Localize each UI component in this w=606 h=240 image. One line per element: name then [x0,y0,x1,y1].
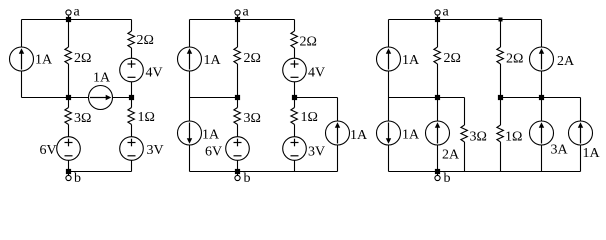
resistor 1ohm ckt2 [291,108,298,125]
node a terminal ckt1 [66,10,71,15]
wire bottom ckt3 [389,171,581,173]
junction mid-mid ckt1 [66,95,71,100]
svg-text:1A: 1A [402,128,420,143]
junction node b ckt2 [235,169,240,174]
svg-text:3V: 3V [147,143,164,158]
junction mid-mid ckt2 [235,95,240,100]
node a stub ckt2 [237,16,239,20]
current source 1A lower-left ckt2 [178,121,202,145]
svg-text:2Ω: 2Ω [506,52,523,67]
svg-text:3Ω: 3Ω [74,111,91,126]
wire right upper stub ckt3 [580,98,582,122]
svg-text:3Ω: 3Ω [244,111,261,126]
resistor 2ohm col4 ckt3 [497,47,504,64]
svg-text:2Ω: 2Ω [137,33,154,48]
wire mid col 3ohm stub ckt2 [237,98,239,108]
wire col5 3A stub ckt3 [541,98,543,122]
node a terminal ckt2 [235,10,240,15]
wire 1ohm to 3V ckt1 [131,125,133,137]
wire 6V to bottom ckt2 [237,160,239,171]
wire 4V to mid ckt2 [294,82,296,98]
resistor 2ohm mid ckt2 [234,47,241,64]
wire right to 4V ckt1 [131,48,133,58]
svg-text:2Ω: 2Ω [244,51,261,66]
svg-text:b: b [444,171,451,186]
svg-text:4V: 4V [308,66,325,81]
wire col4 1ohm stub ckt3 [500,98,502,126]
wire left mid ckt2 [189,71,191,121]
svg-text:1A: 1A [93,71,111,86]
wire col5 to mid ckt3 [541,71,543,98]
wire left lower ckt1 [21,71,23,98]
junction mid-right ckt1 [129,95,134,100]
node b stub ckt1 [68,172,70,176]
node b stub ckt3 [437,172,439,176]
current source 1A horizontal ckt1 [89,86,113,110]
svg-text:b: b [244,171,251,186]
wire 3V to bottom ckt1 [131,160,133,171]
wire 1ohm to 3V ckt2 [294,125,296,137]
wire mid col to mid ckt1 [68,64,70,98]
wire right lower stub ckt2 [337,145,339,172]
svg-text:1A: 1A [35,53,53,68]
voltage source 4V ckt2 [283,58,307,82]
junction node a ckt1 [66,17,71,22]
svg-text:1A: 1A [204,53,222,68]
svg-text:a: a [243,5,250,20]
wire third to 4V ckt2 [294,48,296,58]
resistor 2ohm right ckt2 [291,31,298,48]
svg-text:1A: 1A [350,128,368,143]
svg-text:2Ω: 2Ω [300,35,317,50]
svg-text:a: a [443,5,450,20]
svg-text:1Ω: 1Ω [138,110,155,125]
voltage source 6V ckt1 [57,137,81,161]
current source 1A upper-left ckt2 [178,47,202,71]
wire colA to mid ckt3 [437,64,439,98]
wire mid-left ckt3 [389,97,465,99]
wire right upper stub ckt1 [131,20,133,32]
wire right lower stub ckt3 [580,145,582,172]
wire top ckt1 [22,19,132,21]
wire mid src right stub ckt1 [113,97,132,99]
wire top ckt3 [389,19,542,21]
svg-text:6V: 6V [40,143,57,158]
resistor 2ohm mid ckt1 [65,47,72,64]
wire col5 upper stub ckt3 [541,20,543,48]
resistor 2ohm right ckt1 [128,31,134,48]
wire mid col upper stub ckt2 [237,20,239,48]
svg-text:2Ω: 2Ω [74,51,91,66]
junction third-mid ckt2 [292,95,297,100]
wire left lower ckt3 [388,145,390,172]
wire left upper ckt1 [21,20,23,48]
svg-text:1A: 1A [202,128,220,143]
wire mid-left ckt2 [190,97,238,99]
node a stub ckt1 [68,16,70,20]
current source 1A upper-left ckt3 [377,47,401,71]
junction col5-mid ckt3 [539,95,544,100]
svg-text:2Ω: 2Ω [444,51,461,66]
junction colA-mid ckt3 [435,95,440,100]
svg-text:2A: 2A [442,148,460,163]
wire mid-right ckt2 [295,97,338,99]
wire mid col 3ohm stub ckt1 [68,98,70,108]
wire 3ohm to bottom ckt3 [464,142,466,172]
wire 6V to bottom ckt1 [68,160,70,171]
current source 1A right ckt2 [326,121,350,145]
svg-text:6V: 6V [205,145,222,160]
junction node a ckt2 [235,17,240,22]
wire left upper ckt3 [388,20,390,48]
wire right 1ohm stub ckt1 [131,98,133,108]
wire colA upper stub ckt3 [437,20,439,48]
voltage source 6V ckt2 [226,137,250,161]
wire third 1ohm stub ckt2 [294,98,296,108]
svg-text:3A: 3A [551,143,569,158]
wire mid-right ckt3 [501,97,581,99]
wire right upper stub ckt2 [337,98,339,122]
voltage source 4V ckt1 [120,58,144,82]
wire 3ohm to 6V ckt2 [237,125,239,137]
wire left upper ckt2 [189,20,191,48]
current source 3A ckt3 [530,121,554,145]
node b terminal ckt1 [66,175,71,180]
resistor 1ohm ckt1 [128,108,134,125]
svg-text:3V: 3V [308,145,325,160]
svg-text:1A: 1A [583,146,601,161]
wire third upper stub ckt2 [294,20,296,32]
node b terminal ckt2 [235,175,240,180]
resistor 2ohm colA ckt3 [434,47,441,64]
current source 1A right ckt3 [569,121,593,145]
voltage source 3V ckt1 [120,137,144,161]
svg-text:3Ω: 3Ω [470,130,487,145]
node b stub ckt2 [237,172,239,176]
wire mid col upper stub ckt1 [68,20,70,48]
svg-text:b: b [74,171,81,186]
current source 1A lower-left ckt3 [377,121,401,145]
voltage source 3V ckt2 [283,137,307,161]
svg-text:4V: 4V [146,66,163,81]
resistor 3ohm ckt3 [461,125,468,142]
wire col4 to mid ckt3 [500,64,502,98]
wire colA 2A stub ckt3 [437,98,439,122]
junction col4-mid ckt3 [498,95,503,100]
wire mid-left ckt1 [22,97,69,99]
junction col4 top ckt3 [499,18,503,22]
wire 4V to mid ckt1 [131,82,133,98]
wire mid col to mid ckt2 [237,64,239,98]
wire 3ohm to 6V ckt1 [68,125,70,137]
wire left lower ckt2 [189,145,191,172]
node a terminal ckt3 [435,10,440,15]
resistor 1ohm ckt3 [497,125,504,142]
current source 2A colA ckt3 [426,121,450,145]
svg-text:1Ω: 1Ω [505,130,522,145]
current source 1A left ckt1 [10,47,34,71]
junction node a ckt3 [435,17,440,22]
current source 2A col5 ckt3 [530,47,554,71]
node b terminal ckt3 [435,175,440,180]
junction node b ckt1 [66,169,71,174]
wire mid src left stub ckt1 [69,97,89,99]
wire 3ohm top stub ckt3 [464,98,466,126]
resistor 3ohm ckt1 [65,108,72,125]
svg-text:1Ω: 1Ω [301,110,318,125]
svg-text:2A: 2A [557,54,575,69]
wire 2A to bottom ckt3 [437,145,439,172]
wire 3A to bottom ckt3 [541,145,543,172]
wire bottom ckt2 [190,171,338,173]
resistor 3ohm ckt2 [234,108,241,125]
wire col4 upper stub ckt3 [500,20,502,48]
svg-text:a: a [74,5,81,20]
junction node b ckt3 [435,169,440,174]
wire top ckt2 [190,19,295,21]
wire bottom ckt1 [69,171,132,173]
node a stub ckt3 [437,16,439,20]
svg-text:1A: 1A [402,53,420,68]
wire 3V to bottom ckt2 [294,160,296,171]
wire 1ohm to bottom ckt3 [500,142,502,172]
wire left mid ckt3 [388,71,390,121]
